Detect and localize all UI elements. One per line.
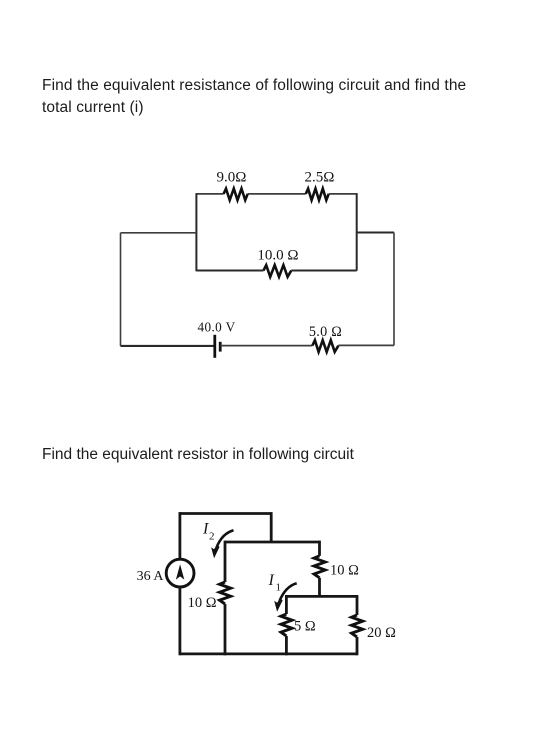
wire: top branch right segment (R2 to node B) (329, 193, 357, 195)
value label 5.0 ohm (309, 324, 342, 340)
wire: left vertical below current source (178, 587, 181, 655)
svg-text:36 A: 36 A (137, 569, 165, 584)
resistor R4 5.0 ohm (zigzag) (312, 340, 338, 352)
svg-text:2.5Ω: 2.5Ω (305, 170, 335, 186)
resistor R3 10.0 ohm (zigzag) (264, 265, 292, 277)
value label 10 ohm right (330, 563, 359, 579)
wire: top branch middle segment (between R1 and R2) (248, 193, 306, 195)
value label 40.0 V (197, 320, 235, 335)
svg-text:5 Ω: 5 Ω (294, 619, 316, 635)
svg-text:2: 2 (209, 531, 215, 543)
value label 2.5ohm (305, 170, 335, 186)
svg-text:10 Ω: 10 Ω (330, 563, 359, 579)
wire: tier2 horizontal (225, 541, 320, 544)
value label 36 A (137, 569, 165, 584)
resistor R8 20 ohm (vertical zigzag) (352, 615, 363, 637)
current label I1 (268, 572, 282, 594)
wire: 5 ohm branch upper segment (285, 595, 288, 614)
resistor R7 5 ohm (vertical zigzag) (281, 614, 292, 636)
wire: bottom wire (180, 653, 357, 656)
resistor R6 10 ohm right (vertical zigzag) (314, 556, 325, 578)
wire: inner right vertical (node B down) (356, 193, 358, 271)
wire: top branch left segment (node A to resistor 9.0) (196, 193, 223, 195)
wire: middle branch left segment (196, 270, 263, 272)
wire: 20 ohm branch upper segment (356, 595, 359, 615)
wire: 5 ohm branch lower segment (285, 636, 288, 655)
svg-text:10 Ω: 10 Ω (188, 595, 217, 611)
wire: middle branch lower segment (224, 604, 227, 655)
battery V1 40.0 V long plate (213, 335, 216, 358)
wire: middle branch right segment (291, 270, 356, 272)
wire: right connector (node B to outer loop) (357, 232, 394, 234)
current source arrow (up) (176, 564, 184, 579)
wire: middle branch upper segment (224, 541, 227, 582)
svg-text:40.0 V: 40.0 V (197, 320, 235, 335)
value label 9.0ohm (217, 170, 247, 186)
resistor R2 2.5 ohm (zigzag) (306, 189, 329, 201)
wire: drop from top wire to tier2 (270, 512, 273, 542)
svg-text:1: 1 (276, 582, 282, 594)
wire: right branch lower segment to tier3 (318, 578, 321, 597)
wire: bottom left segment (to battery) (121, 345, 215, 347)
wire: 20 ohm branch lower segment (356, 637, 359, 655)
battery V1 40.0 V short plate (219, 342, 222, 352)
current arrow I1 (curved, points down) (274, 583, 297, 612)
value label 5 ohm (294, 619, 316, 635)
wire: left connector (outer loop to node A) (121, 232, 197, 234)
wire: outer left vertical (120, 233, 122, 346)
wire: bottom right segment (338, 344, 394, 346)
svg-text:20 Ω: 20 Ω (367, 625, 396, 641)
value label 10 ohm left (188, 595, 217, 611)
wire: outer right vertical (393, 233, 395, 346)
svg-text:I: I (268, 572, 275, 589)
current arrow I2 (curved, points down) (211, 530, 233, 558)
wire: right branch upper segment (318, 541, 321, 556)
current label I2 (202, 521, 215, 543)
wire: tier3 horizontal (286, 595, 357, 598)
value label 10.0 ohm (257, 248, 298, 264)
resistor R5 10 ohm left (vertical zigzag) (220, 582, 231, 604)
current source CS1 36 A (circle) (166, 559, 194, 587)
svg-text:I: I (202, 521, 209, 538)
wire: left vertical above current source (178, 512, 181, 559)
wire: top wire (180, 512, 271, 515)
svg-text:10.0 Ω: 10.0 Ω (257, 248, 298, 264)
value label 20 ohm (367, 625, 396, 641)
svg-text:9.0Ω: 9.0Ω (217, 170, 247, 186)
heading: problem 2 text (42, 444, 354, 466)
heading: problem 1 text (42, 75, 466, 119)
wire: inner left vertical (node A down) (195, 193, 197, 271)
resistor R1 9.0 ohm (zigzag) (224, 189, 248, 201)
wire: bottom middle segment (battery to resistor 5.0) (220, 345, 312, 347)
svg-text:5.0 Ω: 5.0 Ω (309, 324, 342, 340)
